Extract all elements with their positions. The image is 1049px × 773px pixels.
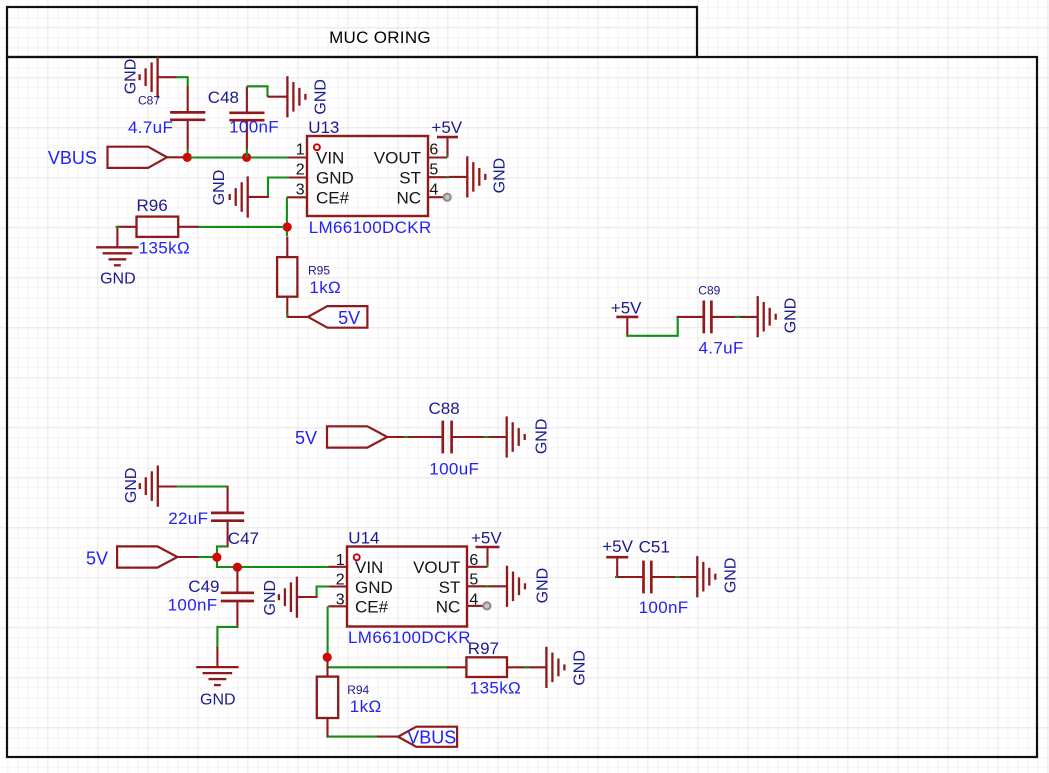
U14 pin name CE#	[355, 598, 389, 617]
svg-text:NC: NC	[396, 188, 421, 207]
power +5V (C51)	[606, 557, 628, 577]
capacitor C47 22uF	[211, 487, 244, 548]
net label VBUS (output)	[407, 727, 456, 747]
port 5V (to C88)	[327, 426, 406, 447]
value 100nF (C48)	[229, 118, 279, 137]
U13 pin-1 indicator	[314, 144, 320, 150]
U14 pin name VIN	[355, 558, 383, 577]
wire ground to C87 top	[176, 77, 188, 87]
U14 pin 5 stub	[467, 585, 489, 587]
U13 pin 2 stub	[289, 176, 308, 178]
svg-text:4: 4	[469, 592, 478, 609]
svg-text:GND: GND	[200, 691, 236, 708]
svg-text:5V: 5V	[338, 308, 360, 328]
U14 pin number 5	[469, 572, 478, 589]
svg-text:C89: C89	[698, 283, 720, 297]
value LM66100DCKR (U14)	[348, 628, 471, 647]
svg-text:VBUS: VBUS	[48, 148, 97, 168]
wire ground to C47	[177, 485, 229, 487]
wire U13 GND pin to ground	[268, 178, 289, 197]
wire U14 GND pin to ground	[317, 587, 329, 598]
svg-text:GND: GND	[122, 59, 139, 95]
ground (U13 GND pin)	[211, 170, 269, 218]
U13 pin number 1	[296, 142, 305, 159]
svg-text:R95: R95	[308, 264, 330, 278]
U13 pin number 4	[429, 181, 438, 198]
svg-text:GND: GND	[783, 298, 800, 334]
U14 pin number 1	[336, 552, 345, 569]
svg-text:2: 2	[296, 162, 305, 179]
net label 5V (C88 port)	[295, 428, 317, 448]
value 100uF (C88)	[429, 460, 479, 479]
U14 pin 4 stub	[467, 605, 483, 607]
power +5V (U13 VOUT)	[437, 137, 458, 157]
power +5V (C89)	[616, 317, 638, 336]
junction CE#/R96/R95	[283, 222, 292, 231]
net label +5V (C51)	[602, 537, 633, 556]
svg-text:C49: C49	[188, 577, 219, 596]
svg-text:CE#: CE#	[355, 598, 389, 617]
U13 pin name GND	[316, 169, 354, 188]
U14 pin 2 stub	[329, 585, 348, 587]
port 5V (from R95)	[287, 306, 367, 328]
svg-text:ST: ST	[399, 169, 421, 188]
wire R96 to junction	[197, 226, 284, 228]
svg-text:R97: R97	[468, 639, 499, 658]
svg-text:C88: C88	[429, 399, 460, 418]
svg-text:R94: R94	[347, 683, 369, 697]
svg-text:NC: NC	[436, 598, 461, 617]
svg-text:LM66100DCKR: LM66100DCKR	[309, 218, 432, 237]
value 4.7uF (C87)	[128, 118, 173, 137]
svg-text:GND: GND	[534, 568, 551, 604]
svg-text:+5V: +5V	[471, 528, 502, 547]
value 1kOhm (R94)	[350, 697, 382, 716]
U14 pin 1 stub	[329, 566, 348, 568]
U13 pin 4 stub	[428, 196, 444, 198]
svg-text:U14: U14	[348, 528, 379, 547]
svg-text:4: 4	[429, 181, 438, 198]
no-connect U14 pin 4	[483, 602, 490, 609]
capacitor C51	[617, 561, 698, 594]
net label 5V (U14 port)	[86, 549, 108, 569]
svg-text:100nF: 100nF	[229, 118, 279, 137]
svg-text:C48: C48	[208, 88, 239, 107]
resistor R94	[317, 660, 338, 738]
value 100nF (C51)	[639, 598, 689, 617]
power +5V (U14 VOUT)	[476, 547, 500, 567]
wire C48 top to ground	[247, 86, 268, 96]
value 100nF (C49)	[168, 596, 218, 615]
ground (U14 ST)	[489, 566, 551, 607]
U13 pin name VOUT	[374, 149, 421, 168]
svg-text:GND: GND	[355, 578, 393, 597]
svg-text:5: 5	[469, 572, 478, 589]
svg-text:2: 2	[336, 572, 345, 589]
svg-text:GND: GND	[211, 170, 228, 206]
svg-text:135kΩ: 135kΩ	[139, 239, 190, 258]
svg-text:U13: U13	[308, 118, 339, 137]
svg-text:100nF: 100nF	[639, 598, 689, 617]
wire +5V to C89	[627, 316, 677, 336]
sheet title box: MUC ORING	[7, 7, 697, 57]
value LM66100DCKR (U13)	[309, 218, 432, 237]
resistor R97	[447, 657, 547, 677]
svg-text:135kΩ: 135kΩ	[470, 679, 521, 698]
value 135kOhm (R96)	[139, 239, 190, 258]
ground (C49)	[196, 647, 238, 708]
label R94	[347, 683, 369, 697]
svg-text:GND: GND	[312, 79, 329, 115]
label C88	[429, 399, 460, 418]
svg-text:GND: GND	[491, 158, 508, 194]
capacitor C88	[408, 421, 507, 454]
svg-text:VBUS: VBUS	[407, 727, 456, 747]
svg-text:4.7uF: 4.7uF	[128, 118, 173, 137]
ground (C48)	[268, 76, 330, 117]
ground (U13 ST)	[449, 156, 508, 197]
svg-text:VOUT: VOUT	[413, 558, 460, 577]
U14 pin-1 indicator	[354, 554, 360, 560]
designator U13	[308, 118, 339, 137]
svg-text:R96: R96	[137, 196, 168, 215]
U13 pin number 6	[429, 142, 438, 159]
IC U13 body	[307, 136, 428, 216]
resistor R96	[116, 217, 199, 248]
svg-text:GND: GND	[316, 169, 354, 188]
U14 pin number 2	[336, 572, 345, 589]
label C48	[208, 88, 239, 107]
U13 pin 1 stub	[289, 156, 308, 158]
ground (C51)	[697, 556, 739, 597]
svg-text:C87: C87	[138, 93, 160, 107]
U13 pin 3 stub	[287, 196, 307, 198]
svg-text:GND: GND	[572, 650, 589, 686]
net label +5V (U13)	[431, 118, 462, 137]
U14 pin number 6	[469, 552, 478, 569]
svg-text:CE#: CE#	[316, 188, 350, 207]
U14 pin 6 stub	[467, 566, 488, 568]
wire C87 to VBUS net	[187, 149, 189, 158]
svg-text:GND: GND	[262, 580, 279, 616]
svg-text:5V: 5V	[295, 428, 317, 448]
U13 pin 5 stub	[428, 176, 449, 178]
svg-text:22uF: 22uF	[168, 509, 208, 528]
value 1kOhm (R95)	[309, 278, 341, 297]
junction CE#/R94/R97	[323, 653, 332, 662]
svg-text:4.7uF: 4.7uF	[699, 338, 744, 357]
capacitor C48	[229, 86, 264, 149]
svg-text:C51: C51	[639, 537, 670, 556]
ground (C88)	[507, 416, 551, 457]
svg-text:GND: GND	[723, 558, 740, 594]
value 4.7uF (C89)	[699, 338, 744, 357]
svg-text:LM66100DCKR: LM66100DCKR	[348, 628, 471, 647]
U14 pin name NC	[436, 598, 461, 617]
ground (R96)	[96, 247, 138, 287]
label C87	[138, 93, 160, 107]
svg-text:100nF: 100nF	[168, 596, 218, 615]
wire U13 CE# down to junction	[286, 197, 288, 236]
label C89	[698, 283, 720, 297]
svg-text:5V: 5V	[86, 549, 108, 569]
U13 pin name NC	[396, 188, 421, 207]
value 135kOhm (R97)	[470, 679, 521, 698]
svg-text:5: 5	[429, 162, 438, 179]
wire R95 to 5V port	[286, 313, 288, 318]
U14 pin name ST	[439, 578, 461, 597]
U14 pin number 3	[336, 592, 345, 609]
port VBUS (output)	[377, 727, 457, 747]
net label +5V (C89)	[611, 298, 642, 317]
wire 5V net (C47 to U14 VIN)	[217, 546, 329, 567]
svg-text:1: 1	[336, 552, 345, 569]
no-connect U13 pin 4	[444, 194, 451, 201]
svg-text:GND: GND	[100, 270, 136, 287]
label R97	[468, 639, 499, 658]
svg-text:+5V: +5V	[431, 118, 462, 137]
junction VBUS/C48	[242, 153, 251, 162]
U13 pin number 2	[296, 162, 305, 179]
wire U13 ST stub tip	[446, 176, 450, 178]
port 5V (U14 input)	[117, 546, 200, 567]
value 22uF (C47)	[168, 509, 208, 528]
junction VBUS/C87	[183, 153, 192, 162]
label C47	[228, 529, 259, 548]
ground (top, near C87)	[122, 57, 177, 98]
wire 5V to C88	[405, 436, 410, 438]
ground (C47)	[123, 466, 177, 507]
svg-text:VIN: VIN	[316, 149, 344, 168]
svg-text:3: 3	[336, 592, 345, 609]
capacitor C49	[221, 567, 254, 628]
net label VBUS	[48, 148, 97, 168]
U13 pin name VIN	[316, 149, 344, 168]
wire junction to R97	[326, 666, 448, 668]
svg-text:GND: GND	[534, 419, 551, 455]
wire U14 ST stub tip	[486, 585, 490, 587]
svg-text:6: 6	[429, 142, 438, 159]
svg-text:+5V: +5V	[611, 298, 642, 317]
U14 pin 3 stub	[329, 605, 348, 607]
wire C48 to VBUS net	[246, 149, 248, 158]
U13 pin name ST	[399, 169, 421, 188]
svg-text:1kΩ: 1kΩ	[350, 697, 382, 716]
svg-text:+5V: +5V	[602, 537, 633, 556]
svg-text:MUC ORING: MUC ORING	[329, 28, 431, 47]
U14 pin name VOUT	[413, 558, 460, 577]
port VBUS (input)	[108, 147, 185, 168]
U14 pin name GND	[355, 578, 393, 597]
label C49	[188, 577, 219, 596]
capacitor C87	[170, 86, 205, 149]
svg-text:100uF: 100uF	[429, 460, 479, 479]
ground (U14 GND pin)	[262, 577, 317, 618]
net label +5V (U14)	[471, 528, 502, 547]
svg-text:1kΩ: 1kΩ	[309, 278, 341, 297]
wire VBUS to U13 VIN	[190, 156, 289, 158]
svg-text:C47: C47	[228, 529, 259, 548]
svg-text:3: 3	[296, 181, 305, 198]
svg-text:GND: GND	[123, 468, 140, 504]
label C51	[639, 537, 670, 556]
wire 5V port to junction	[199, 556, 213, 558]
U13 pin name CE#	[316, 188, 350, 207]
capacitor C89	[677, 301, 758, 334]
resistor R95	[277, 237, 297, 318]
svg-text:6: 6	[469, 552, 478, 569]
wire R94 to VBUS port	[328, 736, 379, 738]
U13 pin 6 stub	[428, 156, 447, 158]
wire C49 to ground	[217, 627, 237, 648]
svg-text:VOUT: VOUT	[374, 149, 421, 168]
ground (R97)	[546, 647, 588, 688]
ground (C89)	[758, 296, 800, 337]
label R96	[137, 196, 168, 215]
label R95	[308, 264, 330, 278]
net label 5V (R95 port)	[338, 308, 360, 328]
U13 pin number 5	[429, 162, 438, 179]
wire U14 CE# down to junction	[327, 606, 329, 657]
svg-text:1: 1	[296, 142, 305, 159]
IC U14 body	[347, 547, 467, 627]
designator U14	[348, 528, 379, 547]
svg-text:VIN: VIN	[355, 558, 383, 577]
svg-text:ST: ST	[439, 578, 461, 597]
junction 5V/C49	[233, 563, 242, 572]
U14 pin number 4	[469, 592, 478, 609]
U13 pin number 3	[296, 181, 305, 198]
junction 5V/C47	[212, 553, 221, 562]
